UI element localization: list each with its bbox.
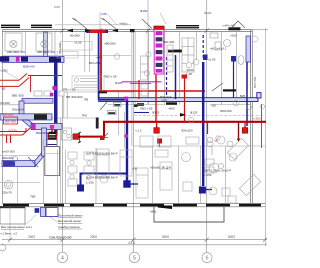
wall black segment right: [228, 27, 240, 30]
corridor wall right half: [132, 31, 265, 146]
red vertical branch left: [30, 76, 32, 93]
svg-text:ч50х: ч50х: [150, 210, 157, 214]
duct assembly below bottom wall: [35, 208, 58, 217]
extension line right mid: [261, 104, 263, 148]
red pipe upper short: [130, 83, 151, 85]
stair box below wall left: [0, 206, 25, 224]
svg-text:ПВ: ПВ: [84, 98, 88, 102]
window bars bottom: [3, 204, 261, 206]
svg-text:5000: 5000: [228, 235, 235, 239]
diffuser boxes above duct B: [34, 91, 64, 96]
svg-text:5000: 5000: [162, 235, 169, 239]
leader lines bottom: [24, 215, 60, 226]
svg-text:ч=ВЧ+ЧВ: ч=ВЧ+ЧВ: [222, 24, 235, 28]
shelf column mid room: [167, 45, 173, 72]
blue main solid left segment: [99, 99, 128, 101]
bathroom fixtures top right: [210, 33, 244, 65]
wall black bar right mid: [223, 89, 236, 91]
blue stub axis6: [206, 189, 212, 191]
room tag circle mid top: [114, 54, 120, 60]
svg-text:чВ Сп4 ±0.1: чВ Сп4 ±0.1: [210, 47, 227, 51]
riser damper magenta lower-left: [50, 125, 54, 129]
riser pin red: [51, 129, 53, 133]
svg-text:Ф100: Ф100: [204, 11, 212, 15]
svg-text:ч50х(В) ЭК Д-Р: ч50х(В) ЭК Д-Р: [150, 166, 171, 170]
leader lines top: [100, 12, 166, 30]
svg-text:АВ1-В00 ч00: АВ1-В00 ч00: [7, 50, 25, 54]
blue duct right wall top: [246, 36, 251, 62]
grid line axis 6: [206, 0, 208, 252]
heating branch right from drop: [101, 90, 205, 92]
door swing right mid: [212, 83, 223, 91]
dimension numbers bottom: [28, 235, 235, 245]
red register top wall: [88, 30, 106, 33]
fire damper duct B: [50, 93, 54, 97]
wall black corner right of axis5: [134, 104, 138, 107]
room tag circle top right: [252, 36, 258, 42]
duct size labels: [0, 34, 261, 214]
svg-text:ч.300: ч.300: [253, 117, 261, 121]
extension line x10 bottom: [9, 207, 11, 240]
room tag circle lower-left: [12, 156, 18, 162]
svg-text:ч400: ч400: [168, 107, 175, 111]
svg-text:ПВ2 ч.05: ПВ2 ч.05: [140, 107, 153, 111]
svg-text:ЦАГИ В1500х300 ВК-Р: ЦАГИ В1500х300 ВК-Р: [86, 152, 118, 156]
exterior wall right: [251, 30, 253, 204]
interior wall mid horizontal: [0, 92, 134, 135]
dimension line bottom 1: [2, 239, 267, 241]
svg-text:600x300: 600x300: [36, 131, 48, 135]
blue node room left: [77, 185, 84, 192]
window bar top C: [176, 25, 199, 28]
svg-text:В2В-ч00: В2В-ч00: [23, 65, 35, 69]
grid line axis 4: [62, 0, 64, 252]
wall black bar mid right: [166, 102, 177, 105]
door swing stair: [28, 102, 108, 167]
blue box top right room: [231, 56, 236, 62]
svg-text:В60-300: В60-300: [163, 40, 175, 44]
svg-text:1-250: 1-250: [86, 181, 94, 185]
room tag circle mid: [186, 62, 192, 68]
fan unit room 1: [5, 33, 22, 51]
small furniture boxes mid: [141, 56, 149, 96]
red drop from top wall: [100, 33, 102, 92]
corridor supply main blue duct: [99, 98, 258, 102]
red radiator box mid: [182, 75, 188, 79]
svg-text:4: 4: [61, 255, 64, 261]
svg-text:ВВ1-300: ВВ1-300: [12, 94, 24, 98]
svg-text:Ф125: Ф125: [190, 111, 198, 115]
red radiator riser mid: [184, 78, 186, 122]
svg-text:ч1.05: ч1.05: [208, 58, 216, 62]
svg-text:В2: В2: [2, 87, 6, 91]
svg-text:ч25: ч25: [211, 104, 216, 108]
svg-text:Ф125: Ф125: [115, 81, 123, 85]
furniture far-right room: [205, 136, 261, 203]
svg-text:600x300: 600x300: [2, 156, 14, 160]
room tag circle right wall: [247, 105, 252, 110]
furniture mid-bottom room: [68, 149, 132, 186]
svg-text:+05: +05: [132, 167, 137, 171]
blue box axis6 top: [203, 55, 208, 61]
svg-text:чВП-1.2ВСп 3Кп2-Р: чВП-1.2ВСп 3Кп2-Р: [204, 169, 231, 173]
svg-text:ч.05: ч.05: [161, 98, 167, 102]
notes bottom-left: [0, 225, 33, 235]
svg-text:220х70: 220х70: [2, 191, 12, 195]
fire damper vertical duct: [52, 86, 56, 90]
supply duct F: [0, 114, 52, 120]
blue riser axis6 dashes: [202, 35, 204, 60]
red stub axis6: [207, 122, 209, 134]
blue stub short right half: [134, 112, 149, 114]
notes bottom-center: [58, 214, 83, 229]
svg-text:ч.1 Вент. ч.2: ч.1 Вент. ч.2: [0, 232, 17, 236]
riser shaft magenta top: [154, 30, 164, 75]
svg-text:2900: 2900: [90, 235, 97, 239]
fire damper riser mid: [125, 134, 128, 137]
svg-text:ч1.05: ч1.05: [74, 41, 82, 45]
supply duct G with bend: [22, 120, 62, 130]
duct riser to wall: [44, 32, 48, 57]
blue node axis6: [199, 187, 206, 194]
red node mid stub: [156, 122, 158, 128]
red node room left: [73, 134, 79, 140]
wall black corner axis5: [130, 29, 135, 32]
red riser from shaft: [155, 74, 157, 121]
svg-text:В10+500: В10+500: [89, 61, 101, 65]
room tag circle x191: [188, 117, 194, 123]
svg-text:5: 5: [133, 255, 136, 261]
svg-text:ч2: ч2: [214, 139, 218, 143]
stair loop below bottom wall: [154, 207, 224, 222]
svg-text:1.18: 1.18: [186, 72, 192, 76]
room tag circle right end: [261, 105, 265, 109]
blue drop right room: [233, 61, 235, 98]
wall corner tick stair: [96, 118, 99, 129]
balcony line top-left: [55, 24, 131, 26]
svg-text:Приточный канал: Приточный канал: [58, 214, 83, 218]
stove lower-left corridor: [62, 128, 72, 140]
blue node riser base: [123, 180, 130, 187]
blue dashed vertical x166: [166, 57, 168, 95]
grid line top partial: [147, 0, 149, 104]
svg-text:ч=В0х: ч=В0х: [119, 22, 128, 26]
dimension ticks top wall: [61, 28, 209, 32]
arrow ticks top wall: [67, 29, 186, 117]
svg-text:±В-300: ±В-300: [0, 101, 10, 105]
shaft box below: [47, 140, 57, 147]
arrow ticks red node: [78, 132, 81, 143]
grid bubble 5: [129, 252, 139, 262]
fan unit box lower-left: [47, 132, 57, 142]
svg-text:ч 0.5: ч 0.5: [96, 56, 103, 60]
red duct far left: [0, 74, 29, 87]
exterior wall bottom: [2, 203, 265, 206]
svg-text:Вытяжной канал: Вытяжной канал: [58, 219, 81, 223]
svg-text:300x150: 300x150: [220, 109, 232, 113]
svg-text:-0.300: -0.300: [8, 129, 17, 133]
svg-text:чВ0х300: чВ0х300: [104, 42, 116, 46]
svg-text:4.05: 4.05: [101, 12, 107, 16]
svg-text:ЦАГИ В1500х300 ВК-Р: ЦАГИ В1500х300 ВК-Р: [86, 176, 118, 180]
svg-text:600-300: 600-300: [2, 113, 13, 117]
heating elbow left: [77, 122, 104, 137]
svg-text:ч 1.2: ч 1.2: [135, 129, 142, 133]
blue riser axis6: [202, 62, 204, 186]
red drop left of shaft: [138, 80, 140, 99]
blue riser center: [126, 99, 128, 182]
svg-text:Сам.брус/Снаб: Сам.брус/Снаб: [49, 235, 72, 239]
svg-text:ч100: ч100: [230, 34, 237, 38]
supply duct A top-left: [0, 56, 64, 62]
svg-text:ПВ2 ч.05: ПВ2 ч.05: [104, 75, 117, 79]
washing machine lower-left: [4, 180, 13, 189]
svg-text:ПВ1 ч.05: ПВ1 ч.05: [63, 88, 76, 92]
furniture right-bottom room1: [136, 136, 233, 198]
grid line axis 5: [133, 30, 135, 252]
svg-text:а+00-300: а+00-300: [2, 150, 15, 154]
red revision box corridor left: [4, 117, 18, 124]
diffuser bar x175: [168, 50, 182, 53]
red duct lower-left L: [0, 128, 30, 143]
room tag circle x147: [144, 70, 150, 76]
red stub right room: [238, 122, 240, 139]
damper bar below main: [137, 103, 144, 106]
svg-text:ч.2В1: ч.2В1: [0, 69, 8, 73]
svg-text:В25: В25: [240, 94, 246, 98]
shaft walls lower-left: [44, 140, 58, 204]
red line upper left: [28, 75, 62, 77]
heating main red: [103, 121, 266, 123]
fan unit room 2: [36, 33, 52, 51]
radiator mark room: [157, 139, 162, 148]
svg-text:7В9: 7В9: [30, 195, 36, 199]
blue vertical right room: [246, 55, 248, 126]
label box room mid 2: [57, 52, 78, 59]
svg-text:Самбур каналы: Самбур каналы: [58, 225, 80, 229]
dimension ticks bottom: [8, 238, 267, 242]
blue duct end elbow up: [257, 93, 261, 98]
svg-text:АВ1-В00 ч00: АВ1-В00 ч00: [37, 50, 55, 54]
blue stub arrow right: [131, 183, 138, 185]
interior walls left wing: [2, 31, 131, 72]
grid line right edge: [265, 28, 267, 246]
shaft register red top: [154, 26, 164, 31]
dimension line bottom 2: [2, 244, 267, 246]
bed box lower-left: [45, 147, 60, 176]
duct drop vertical left: [54, 62, 58, 136]
svg-text:В10-500: В10-500: [253, 76, 257, 88]
svg-text:Вентиляционные сист.: Вентиляционные сист.: [1, 225, 33, 229]
svg-text:6: 6: [205, 256, 208, 262]
grid bubble 4: [57, 252, 67, 262]
svg-text:Ф100: Ф100: [140, 9, 148, 13]
leader diagonal left: [5, 72, 18, 80]
exterior wall top: [2, 30, 268, 32]
magenta pipe upper: [122, 81, 162, 83]
top dimension texts: [54, 5, 235, 28]
svg-text:2.05: 2.05: [54, 5, 60, 9]
blue vertical x175: [175, 55, 177, 99]
svg-text:ПМ: ПМ: [82, 114, 87, 118]
supply duct B: [19, 98, 53, 114]
svg-text:300х300: 300х300: [12, 108, 24, 112]
supply duct D lower-left: [2, 128, 47, 167]
legend box mid: [72, 76, 104, 90]
red node right: [242, 128, 248, 134]
svg-text:300x150: 300x150: [181, 129, 193, 133]
window bar top B: [31, 25, 52, 28]
svg-text:Ф125: Ф125: [152, 111, 160, 115]
entrance wedge: [158, 206, 172, 210]
svg-text:60x300: 60x300: [70, 34, 80, 38]
svg-text:600-300: 600-300: [5, 120, 16, 124]
radiator mark left room: [100, 136, 108, 141]
wardrobe grid right-top: [182, 38, 194, 72]
red node right stub: [244, 122, 246, 128]
exterior wall left: [1, 30, 3, 204]
door swings top wall: [72, 18, 245, 29]
grid bubble 6: [202, 253, 212, 263]
svg-text:2000: 2000: [28, 235, 35, 239]
elevation mark left edge: [0, 244, 6, 251]
red node mid: [154, 128, 160, 134]
blue drop from top wall: [98, 33, 100, 100]
fire damper magenta corridor: [124, 97, 128, 101]
room tag circles: [146, 52, 239, 147]
svg-text:В10-500: В10-500: [58, 42, 62, 54]
svg-text:ПВ 400x300: ПВ 400x300: [66, 95, 83, 99]
interior walls bottom rooms: [0, 112, 226, 203]
wall black segment mid: [99, 90, 107, 93]
label box room mid 1: [61, 42, 93, 51]
svg-text:ч 250: ч 250: [204, 173, 212, 177]
window bar top A: [1, 25, 20, 28]
blue branch room left: [81, 174, 128, 187]
